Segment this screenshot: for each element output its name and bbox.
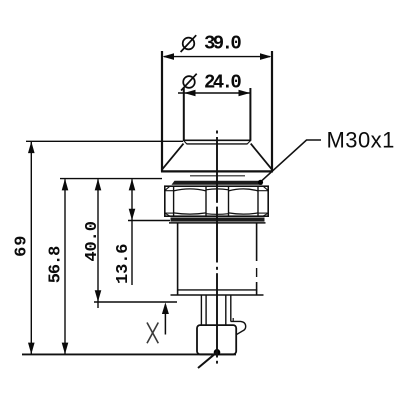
nut facet line 1 xyxy=(173,186,175,216)
nut right sliver inner lines xyxy=(258,190,268,192)
cap cone right edge xyxy=(251,144,273,170)
travel arrow X xyxy=(164,305,166,335)
extension line body bottom (40 ref) xyxy=(94,301,177,303)
nut facet line 2 xyxy=(205,186,207,216)
cap shoulder line xyxy=(187,143,248,145)
dimension 40.0 arrow bottom xyxy=(95,290,102,302)
dimension d39 line xyxy=(164,56,270,58)
dimension d39 label phi symbol xyxy=(183,38,195,50)
cap bottom edge xyxy=(161,170,273,172)
button cylinder right edge / d24 extension xyxy=(249,88,251,141)
body right edge upper segment xyxy=(256,224,258,262)
dimension 56.8 arrow top xyxy=(62,179,69,191)
dimension 56.8 arrow bottom xyxy=(62,343,69,355)
connector block xyxy=(197,325,236,354)
terminal leg left xyxy=(200,295,202,325)
cap shoulder tick left xyxy=(184,141,187,144)
lower washer band xyxy=(171,218,265,222)
dimension 13.6 arrow bottom xyxy=(129,209,136,221)
dimension d39 extension line left xyxy=(161,51,163,172)
dimension 40.0 arrow top xyxy=(95,179,102,191)
extension line nut bottom (13.6 ref) xyxy=(128,220,170,222)
cap cone left edge xyxy=(162,144,184,170)
dimension d39 arrow left xyxy=(162,53,174,60)
nut chamfer arc top right panel xyxy=(229,189,259,191)
lower washer bottom edge xyxy=(169,222,266,224)
body right edge lower segment xyxy=(256,282,258,295)
bottom reference line xyxy=(22,353,236,355)
dimension d24 line xyxy=(178,92,250,94)
dimension 40.0 line xyxy=(97,179,99,308)
dimension d39 arrow right xyxy=(260,53,272,60)
nut corner chamfer top left xyxy=(165,187,170,191)
rubber gasket band xyxy=(172,181,263,185)
nut chamfer arc bottom middle panel xyxy=(206,213,229,216)
button cylinder left edge / d24 extension xyxy=(183,88,185,141)
hex nut outline xyxy=(165,186,268,216)
washer top visible edge xyxy=(190,175,245,177)
body right edge middle segment xyxy=(256,268,258,277)
extension line top of cap (69 ref) xyxy=(26,140,183,142)
dimension 13.6 line xyxy=(131,179,133,285)
nut facet line 4 xyxy=(257,186,259,216)
dimension 13.6 arrow top xyxy=(129,179,136,191)
center line xyxy=(216,131,218,134)
nut facet line 3 xyxy=(228,186,230,216)
svg-text:M30x1: M30x1 xyxy=(327,128,395,153)
thread leader line xyxy=(260,140,321,182)
nut chamfer arc top left panel xyxy=(174,189,206,191)
pointer diagonal line xyxy=(198,352,217,368)
nut corner chamfer top right xyxy=(264,187,269,191)
body bottom edge xyxy=(177,289,257,291)
dimension d24 arrow left xyxy=(184,90,196,97)
dimension 69 arrow bottom xyxy=(28,343,35,355)
svg-text:40.0: 40.0 xyxy=(83,221,102,261)
dimension d24 label phi symbol xyxy=(183,76,195,88)
dimension d24 arrow right xyxy=(239,90,251,97)
travel label X xyxy=(147,323,158,344)
solder lug hook xyxy=(231,321,246,334)
nut chamfer arc bottom right panel xyxy=(229,213,259,214)
dimension 69 line xyxy=(30,142,32,354)
nut corner chamfer bottom left xyxy=(165,213,170,216)
svg-text:39.0: 39.0 xyxy=(204,33,241,55)
svg-text:56.8: 56.8 xyxy=(46,246,65,283)
body left edge xyxy=(177,224,179,295)
dimension 56.8 line xyxy=(64,179,66,354)
svg-text:13.6: 13.6 xyxy=(114,244,133,284)
base flange bottom edge xyxy=(171,294,264,296)
cap shoulder tick right xyxy=(247,141,250,144)
dimension d39 extension line right xyxy=(271,51,273,172)
junction dot xyxy=(214,349,221,356)
svg-text:24.0: 24.0 xyxy=(204,71,241,93)
button cylinder bottom edge xyxy=(183,139,251,141)
extension line top of nut (56.8/40/13.6 ref) xyxy=(60,178,162,180)
terminal leg right xyxy=(225,295,227,325)
nut corner chamfer bottom right xyxy=(264,213,269,216)
svg-text:69: 69 xyxy=(12,235,31,257)
nut chamfer arc top middle panel xyxy=(206,188,229,191)
nut left sliver inner lines xyxy=(165,190,174,192)
dimension 69 arrow top xyxy=(28,142,35,154)
nut chamfer arc bottom left panel xyxy=(174,213,206,214)
lug stub line xyxy=(232,318,234,322)
